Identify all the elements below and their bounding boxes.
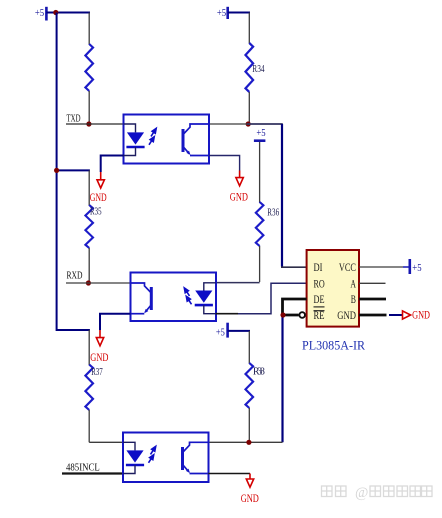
resistor R37: [85, 330, 103, 442]
svg-text:R36: R36: [267, 206, 279, 218]
wire opto1 collector to DI riser: [209, 123, 248, 125]
resistor R35: [85, 170, 102, 283]
wire rail branch to R35: [57, 169, 90, 171]
svg-text:+5: +5: [256, 127, 265, 139]
opto3 LED diode: [126, 450, 143, 462]
wire R36 to opto2 anode: [216, 282, 260, 284]
resistor R38: [246, 331, 265, 442]
svg-text:PL3085A-IR: PL3085A-IR: [302, 338, 366, 352]
gnd symbol G3 (below opto2 left): [90, 314, 130, 365]
opto2 phototransistor: [150, 287, 153, 310]
opto3 LED cathode lead: [123, 465, 135, 474]
power +5 symbol P3 (middle, R36): [254, 127, 266, 140]
svg-text:TXD: TXD: [67, 112, 81, 124]
svg-text:+5: +5: [35, 7, 44, 19]
node junction J5 RXD: [86, 280, 91, 285]
wire B thick: [359, 298, 386, 301]
svg-text:GND: GND: [90, 352, 108, 365]
wire +5 P4 to R38: [228, 330, 250, 332]
svg-text:R35: R35: [90, 205, 102, 217]
svg-text:GND: GND: [230, 191, 248, 204]
svg-text:R38: R38: [253, 367, 265, 378]
wire A: [359, 282, 386, 284]
power +5 symbol P1 (top left): [35, 7, 47, 21]
resistor R34: [246, 13, 265, 125]
opto2 light arrows: [184, 288, 191, 304]
node junction J4 opto1 collector: [246, 121, 251, 126]
svg-text:DE: DE: [314, 294, 325, 307]
svg-text:+5: +5: [412, 262, 421, 274]
wire rail bottom turn to R37: [57, 329, 90, 331]
node junction J1 on +5 wire: [53, 10, 58, 15]
wire opto2 cathode black segment: [216, 313, 238, 315]
resistor pullup (unlabeled, top-left): [85, 13, 93, 125]
svg-text:RXD: RXD: [67, 270, 83, 282]
wire DE thick: [283, 299, 307, 315]
svg-text:A: A: [350, 278, 356, 291]
wire R37 to opto3: [89, 441, 123, 443]
svg-text:485INCL: 485INCL: [66, 462, 100, 474]
node junction J7 R38/opto3: [246, 440, 251, 445]
svg-text:GND: GND: [241, 493, 259, 506]
svg-text:RO: RO: [314, 278, 325, 291]
wire RXD: [66, 282, 132, 284]
gnd symbol G2 (below opto1 right): [209, 156, 248, 204]
wire 485INCL: [62, 472, 123, 474]
svg-text:DI: DI: [314, 262, 323, 275]
power +5 symbol P2 (top, R34): [217, 7, 228, 20]
svg-text:GND: GND: [90, 192, 107, 205]
opto3 light arrows: [149, 446, 156, 462]
IC U1 PL3085A-IR: [307, 250, 359, 327]
wire RO net (IC to opto2 cathode): [238, 283, 307, 313]
opto3 LED anode lead: [123, 442, 135, 450]
wire TXD: [66, 123, 124, 125]
wire opto3 collector row: [208, 441, 282, 443]
svg-text:@: @: [355, 485, 368, 501]
wire VCC: [359, 266, 403, 268]
wire main +5 rail vertical: [56, 13, 58, 332]
optocoupler U-bottom (opto3): [123, 433, 209, 483]
opto2 LED cathode lead: [204, 305, 216, 314]
power +5 symbol P5 (VCC): [403, 259, 422, 274]
optocoupler U-mid (opto2, mirrored): [131, 273, 217, 322]
svg-text:+5: +5: [216, 328, 225, 339]
RE inverter bubble: [299, 312, 305, 318]
opto2 LED diode: [195, 291, 212, 303]
opto1 phototransistor: [182, 129, 185, 152]
svg-text:VCC: VCC: [339, 262, 356, 275]
wire DE/RE net riser: [281, 315, 283, 442]
wire GND thick: [359, 314, 387, 317]
optocoupler U-top (opto1): [124, 115, 210, 164]
svg-text:R34: R34: [252, 63, 265, 75]
opto1 light arrows: [149, 128, 156, 144]
wire DI riser vertical: [281, 124, 283, 267]
node junction J6 DE/RE: [280, 312, 285, 317]
wire +5 P2 to R34: [228, 12, 250, 14]
gnd symbol G1 (below opto1 left): [90, 156, 124, 205]
svg-text:GND: GND: [412, 309, 430, 322]
node junction J2 TXD: [86, 121, 91, 126]
svg-text:RE: RE: [314, 310, 325, 323]
node junction J3 rail/R35: [54, 168, 59, 173]
svg-text:+5: +5: [217, 7, 226, 19]
opto2 LED anode lead: [204, 283, 216, 291]
opto3 phototransistor: [181, 447, 184, 470]
wire +5 P1 to pullup resistor: [46, 12, 90, 14]
svg-text:GND: GND: [337, 310, 356, 323]
gnd symbol G5 (IC right, arrow right): [389, 309, 430, 322]
opto1 LED anode lead: [124, 124, 136, 132]
wire RE thick: [283, 314, 299, 317]
svg-text:R37: R37: [91, 366, 103, 378]
opto1 LED cathode lead: [124, 147, 136, 156]
watermark 知乎 @艾锐达光电: [322, 486, 347, 497]
resistor R36: [256, 142, 280, 282]
gnd symbol G4 (opto3 right): [208, 474, 259, 506]
power +5 symbol P4 (R38): [216, 323, 228, 339]
svg-text:B: B: [351, 294, 356, 307]
opto1 LED diode: [127, 132, 144, 144]
